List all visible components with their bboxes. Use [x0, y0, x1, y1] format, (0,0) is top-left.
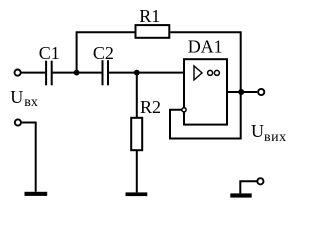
capacitor C2: [103, 60, 109, 85]
ground (lower-right): [230, 193, 251, 197]
op-amp DA1 box: [184, 59, 227, 124]
wire lower-right terminal to ground: [240, 181, 257, 193]
wire node A up to R1: [77, 32, 135, 72]
wire R2 to ground: [136, 151, 138, 193]
svg-text:R2: R2: [140, 97, 161, 117]
svg-text:вих: вих: [264, 130, 287, 145]
lower-right terminal: [257, 178, 263, 184]
wire R1 to output node: [170, 32, 240, 92]
input terminal Uвх: [15, 70, 21, 76]
svg-text:C1: C1: [39, 43, 60, 63]
lower-left terminal: [15, 119, 21, 125]
resistor R1: [136, 25, 170, 38]
op-amp triangle symbol: [194, 66, 202, 80]
svg-text:R1: R1: [139, 6, 160, 26]
node B junction dot: [134, 70, 140, 76]
wire lower-left terminal to ground: [21, 123, 36, 192]
output terminal Uвих: [258, 89, 264, 95]
svg-text:вх: вх: [24, 95, 38, 110]
ground (lower-left): [25, 192, 48, 196]
wire C1 to C2: [53, 72, 102, 74]
resistor R2: [131, 118, 142, 150]
svg-text:U: U: [251, 121, 264, 141]
svg-text:U: U: [10, 87, 23, 107]
svg-text:C2: C2: [93, 43, 114, 63]
wire C2 to op-amp input: [109, 72, 184, 74]
output junction dot: [238, 89, 244, 95]
node A junction dot: [74, 70, 80, 76]
wire input to C1: [21, 72, 46, 74]
ground (R2): [126, 192, 148, 196]
capacitor C1: [46, 61, 52, 86]
wire node B down to R2: [136, 73, 138, 117]
feedback wire from inverting input: [170, 92, 241, 139]
op-amp infinity symbol: [208, 70, 220, 75]
output wire: [227, 91, 257, 93]
inverting input circle: [182, 108, 186, 112]
svg-text:DA1: DA1: [188, 37, 223, 57]
